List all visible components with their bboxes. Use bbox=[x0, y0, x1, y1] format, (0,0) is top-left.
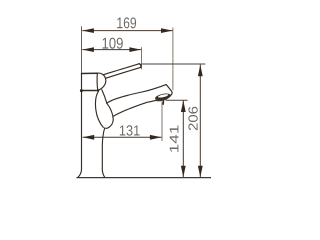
bulge outline right (vertex down to column) bbox=[105, 103, 114, 128]
handle cap (back end) edges bbox=[82, 72, 98, 74]
arrowhead 109 left bbox=[82, 47, 94, 52]
aerator outer ellipse bbox=[154, 92, 171, 101]
aerator white slit bbox=[158, 94, 169, 99]
extension line for 131 right (x=162) bbox=[161, 102, 163, 142]
extension line top for 206 (y=64) bbox=[142, 63, 206, 65]
dimension label 131 bbox=[120, 125, 140, 135]
junction dot at handle cap corner bbox=[80, 89, 83, 92]
base column right edge bbox=[102, 128, 105, 177]
arrowhead 141 top bbox=[181, 100, 186, 112]
knuckle seam (left edge of pivot boss) bbox=[96, 73, 99, 90]
base column left edge bbox=[78, 90, 82, 177]
extension line left (x=81.5 top) bbox=[81, 26, 83, 73]
spout slab top edge B (vertex rises to tip) bbox=[107, 85, 167, 104]
handle lever tip face bbox=[139, 64, 141, 68]
arrowhead 206 top bbox=[198, 65, 203, 77]
dimension line 169 bbox=[82, 30, 172, 32]
knuckle (lever pivot) round boss bbox=[97, 73, 106, 90]
spout end face bbox=[156, 85, 172, 101]
arrowhead 141 bottom bbox=[181, 166, 186, 178]
arrowhead 169 right bbox=[161, 28, 173, 33]
extension line right of 169 (x=173) bbox=[172, 28, 174, 91]
arrowhead 131 right bbox=[150, 135, 162, 140]
spout slab bottom edge C bbox=[113, 100, 155, 116]
dimension line 109 bbox=[82, 49, 141, 51]
extension line spout bottom for 141 (y=99.6) bbox=[166, 99, 188, 101]
handle lever top edge bbox=[103, 64, 139, 75]
water drip tick under aerator bbox=[162, 101, 164, 104]
arrowhead 109 right bbox=[129, 47, 141, 52]
arrowhead 169 left bbox=[82, 28, 94, 33]
body neck seam A (knuckle down to vertex) bbox=[102, 90, 107, 103]
dimension label 141 (rotated) bbox=[170, 126, 179, 153]
baseline / ground extension line (y=177.6) bbox=[77, 177, 212, 179]
arrowhead 131 left bbox=[83, 135, 95, 140]
junction dot at knuckle bottom corner bbox=[97, 89, 99, 91]
dimension line 131 bbox=[83, 136, 162, 138]
arrowhead 206 bottom bbox=[198, 166, 203, 178]
dimension label 206 (rotated) bbox=[188, 107, 197, 131]
faucet outline group bbox=[78, 64, 172, 178]
dimension line 141 (vertical) bbox=[182, 100, 184, 177]
bulge outline left D bbox=[95, 91, 103, 127]
dimension label 109 bbox=[103, 38, 123, 49]
dimension label 169 bbox=[117, 17, 136, 28]
handle lever bottom edge bbox=[106, 67, 141, 78]
dimension line 206 (vertical) bbox=[199, 65, 201, 178]
extension line for 109 (x=141.5) bbox=[141, 47, 143, 69]
